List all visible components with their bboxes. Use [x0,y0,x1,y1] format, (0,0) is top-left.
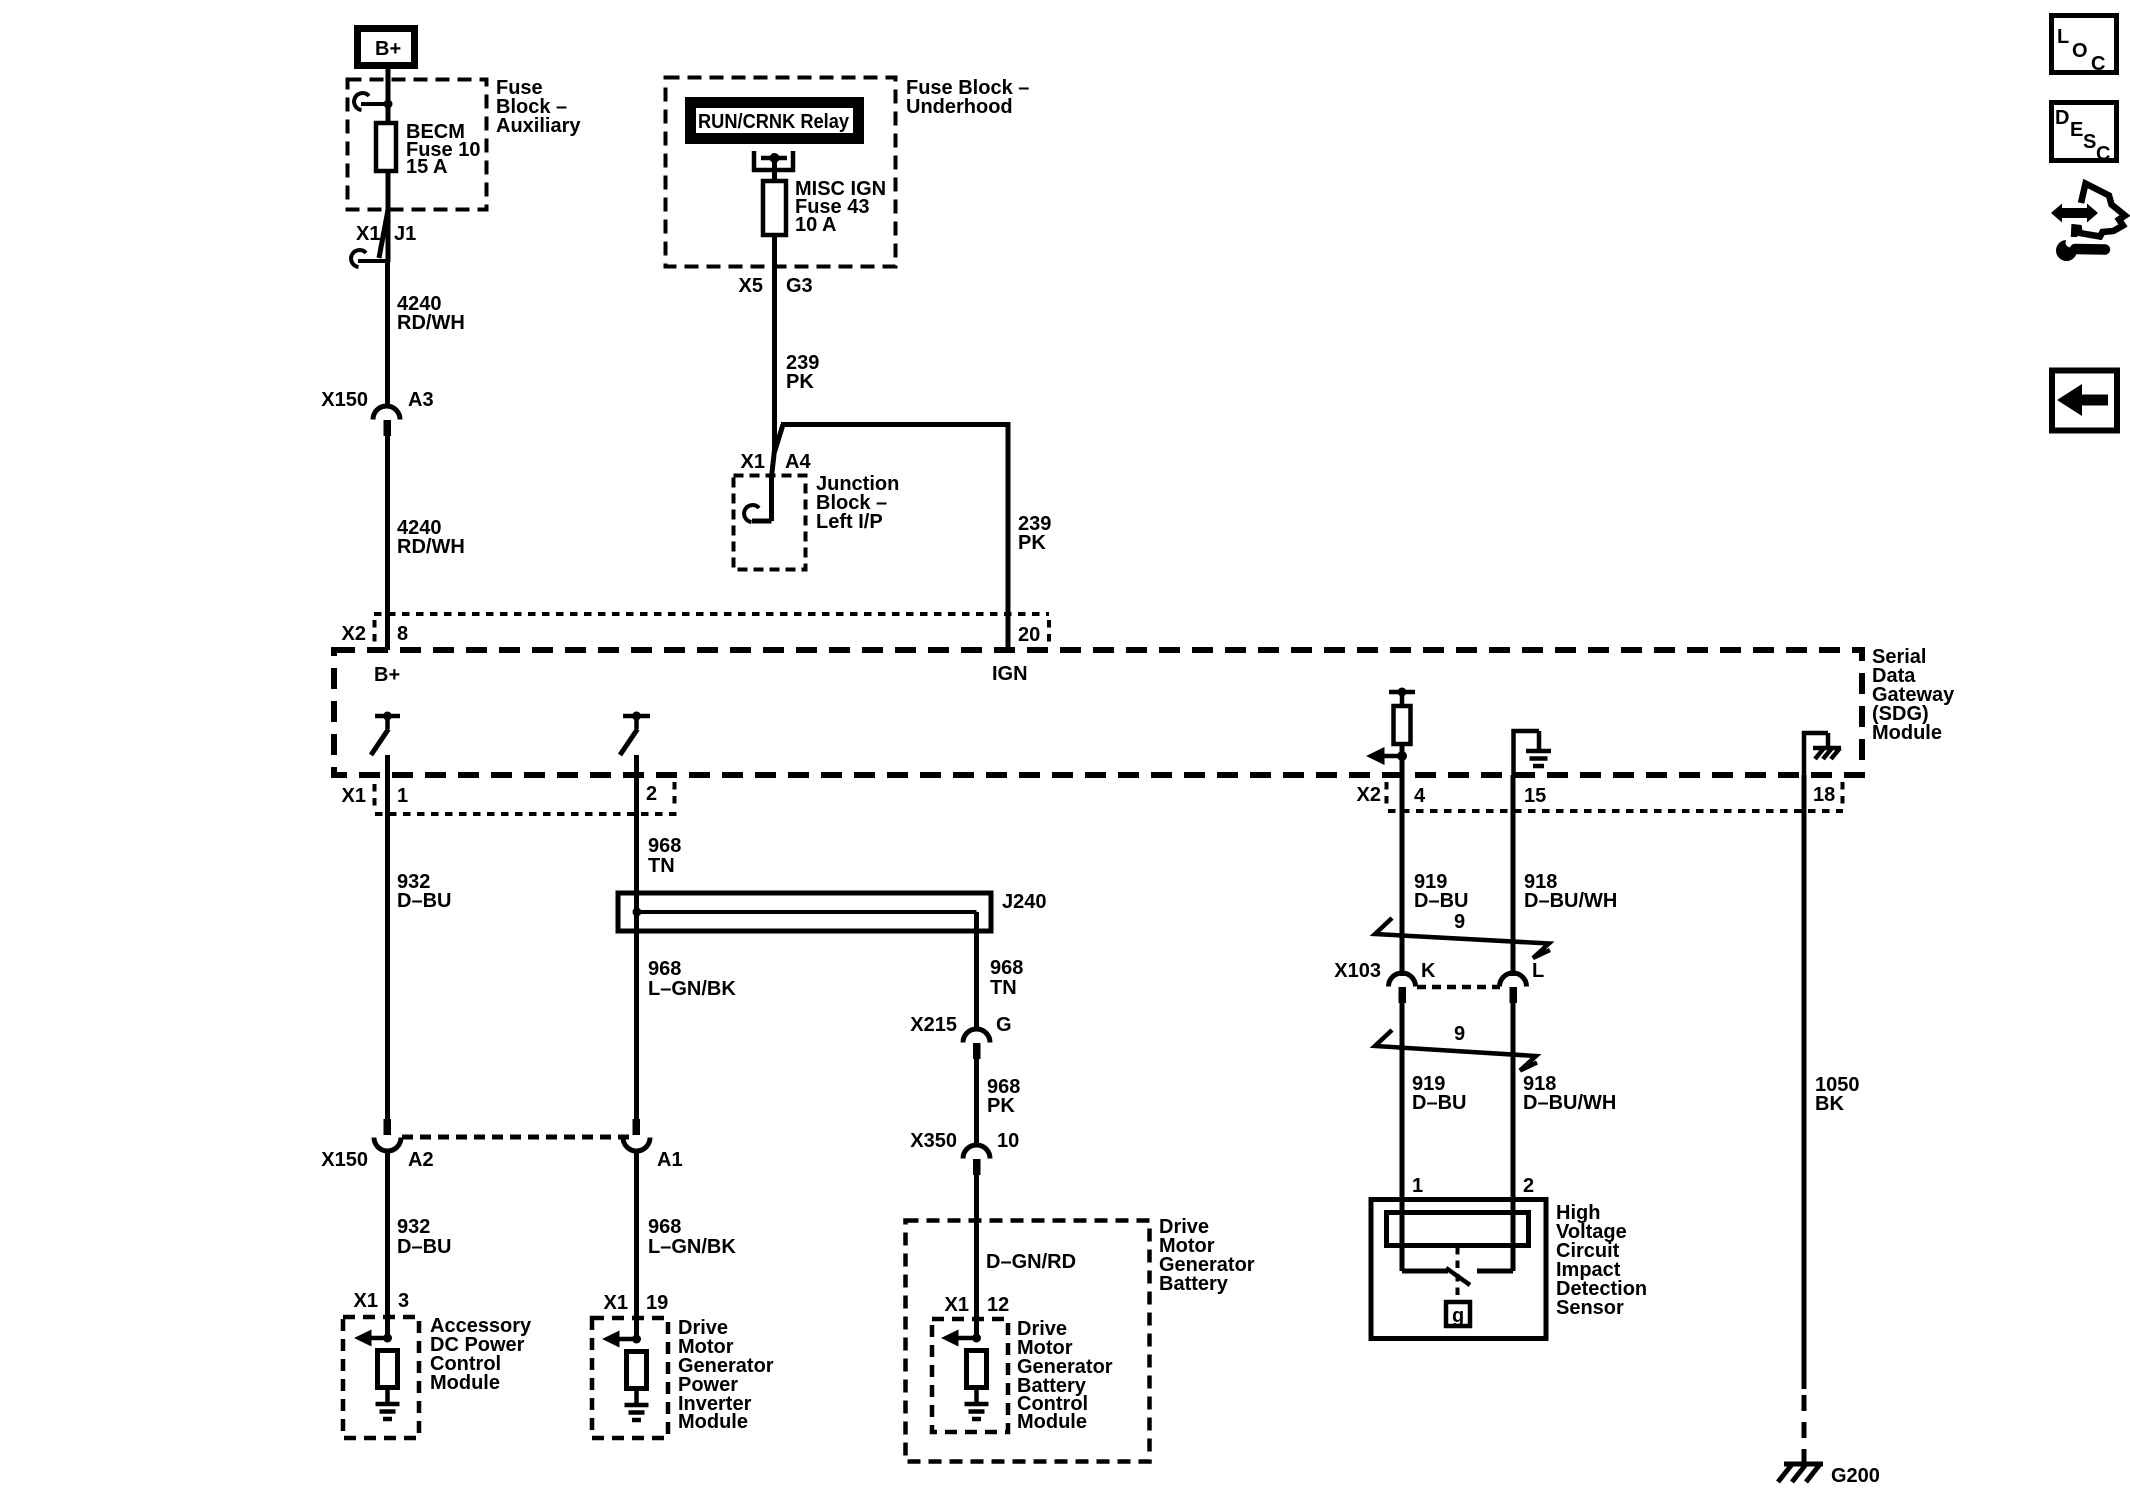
icon back arrow [2052,371,2117,431]
svg-text:12: 12 [987,1294,1009,1316]
svg-text:A1: A1 [657,1149,683,1171]
svg-text:IGN: IGN [992,663,1028,685]
connector X103 L [1500,973,1527,1003]
svg-text:RD/WH: RD/WH [397,312,465,334]
svg-text:G3: G3 [786,275,813,297]
svg-text:968: 968 [648,835,681,857]
svg-text:PK: PK [1018,532,1046,554]
svg-text:D–BU: D–BU [1412,1092,1466,1114]
svg-text:TN: TN [990,977,1017,999]
fuse MISC IGN Fuse 43 10A [763,181,786,235]
svg-text:A2: A2 [408,1149,434,1171]
connector strip X2 (top of SDG module) [374,614,1049,647]
wire to battery module [974,1175,979,1338]
module Drive Motor Generator Power Inverter Module [592,1318,668,1438]
relay terminal socket [752,151,795,172]
svg-text:Module: Module [1872,722,1942,744]
wire 918 D-BU/WH upper [1511,775,1516,976]
svg-text:968: 968 [648,1216,681,1238]
wire 919 D-BU lower [1400,1003,1405,1241]
box Drive Motor Generator Battery [906,1221,1150,1462]
wire B+ to BECM fuse [386,69,391,122]
svg-text:8: 8 [397,623,408,645]
switch S1 (inside SDG, pin 1) [371,712,400,756]
svg-text:E: E [2070,119,2083,141]
wire 919 D-BU upper [1400,775,1405,976]
svg-text:L: L [2057,26,2069,48]
fuse block underhood box [666,78,896,267]
svg-text:A4: A4 [785,451,811,473]
svg-text:15 A: 15 A [406,156,448,178]
svg-text:4: 4 [1414,785,1426,807]
switch S2 (inside SDG, pin 2) [620,712,650,756]
svg-text:D–BU: D–BU [397,1236,451,1258]
svg-text:G200: G200 [1831,1465,1880,1487]
fuse BECM Fuse 10 15A [376,123,396,171]
svg-text:19: 19 [646,1292,668,1314]
svg-text:X1: X1 [604,1292,628,1314]
fuse clip terminal (top) [354,93,392,110]
svg-text:X150: X150 [321,389,368,411]
svg-text:932: 932 [397,1216,430,1238]
wire branch to IGN (239 PK right) [775,422,1009,651]
svg-text:S: S [2083,131,2096,153]
svg-text:Auxiliary: Auxiliary [496,115,581,137]
wire 968 L-GN/BK lower [634,1151,639,1339]
svg-text:9: 9 [1454,911,1465,933]
svg-text:TN: TN [648,855,675,877]
svg-text:J240: J240 [1002,891,1047,913]
module Drive Motor Generator Battery Control Module [932,1319,1008,1432]
svg-text:Module: Module [1017,1411,1087,1433]
junction clip terminal [744,505,759,522]
connector strip X1 (bottom left of SDG) [375,782,678,814]
svg-text:X1: X1 [356,223,380,245]
svg-text:X5: X5 [739,275,763,297]
svg-text:X103: X103 [1334,960,1381,982]
svg-text:X350: X350 [910,1130,957,1152]
svg-text:G: G [996,1014,1012,1036]
wire 918 D-BU/WH lower [1511,1003,1516,1241]
connector X103 K [1389,973,1416,1003]
svg-text:L: L [1532,960,1544,982]
module Accessory DC Power Control Module [343,1317,419,1438]
svg-text:D–BU/WH: D–BU/WH [1524,890,1617,912]
svg-text:K: K [1421,960,1436,982]
svg-text:X2: X2 [342,623,366,645]
svg-text:B+: B+ [374,664,400,686]
svg-text:Left I/P: Left I/P [816,511,883,533]
twisted pair symbol lower, label 9 [1375,1030,1537,1071]
splice pack J240 [618,893,991,931]
arrow out (pin 4) [1366,747,1407,765]
svg-text:10 A: 10 A [795,214,837,236]
svg-text:2: 2 [646,783,657,805]
svg-text:A3: A3 [408,389,434,411]
svg-text:RUN/CRNK Relay: RUN/CRNK Relay [698,111,850,133]
svg-text:X1: X1 [354,1290,378,1312]
wire fuse 43 down through X5 G3 [772,235,777,452]
svg-text:X150: X150 [321,1149,368,1171]
svg-text:D: D [2055,107,2069,129]
resistor (inside SDG, pin 4) [1389,688,1415,776]
junction block left I/P box [734,476,806,570]
wire 4240 RD/WH upper [385,261,390,407]
svg-text:X1: X1 [342,785,366,807]
svg-text:Sensor: Sensor [1556,1297,1624,1319]
svg-text:X1: X1 [945,1294,969,1316]
icon schematic tool (arrows and wrench) [2051,184,2125,262]
svg-text:B+: B+ [375,38,401,60]
connector A1 [623,1119,650,1151]
fuse block auxiliary box [348,80,487,210]
svg-text:968: 968 [990,957,1023,979]
icon LOC [2052,16,2117,76]
chassis ground (inside SDG, pin 18) [1802,731,1841,775]
connector X215 G [963,1029,990,1059]
svg-text:Module: Module [678,1411,748,1433]
wire 968 PK [974,1059,979,1145]
svg-text:BK: BK [1815,1093,1844,1115]
svg-text:3: 3 [398,1290,409,1312]
sensor High Voltage Circuit Impact Detection Sensor [1371,1199,1546,1339]
connector strip X2 (bottom right of SDG) [1387,782,1844,811]
svg-text:D–GN/RD: D–GN/RD [986,1251,1076,1273]
wire 968 TN right of J240 [974,912,979,1029]
wire relay to fuse 43 [772,158,777,181]
svg-text:1: 1 [397,785,408,807]
ground G200 [1778,1463,1823,1482]
svg-text:20: 20 [1018,624,1040,646]
svg-text:D–BU: D–BU [1414,890,1468,912]
svg-text:2: 2 [1523,1175,1534,1197]
dashed link K to L [1417,985,1500,990]
wire 4240 RD/WH lower [385,436,390,650]
svg-text:15: 15 [1524,785,1546,807]
svg-text:O: O [2072,40,2088,62]
svg-text:968: 968 [648,958,681,980]
wire fuse to X1 J1 [386,171,391,262]
ground (inside SDG, pin 15) [1512,729,1552,775]
fuse clip terminal (bottom) with slanted lead [351,210,388,267]
connector X150 A3 [373,406,400,436]
svg-text:g: g [1452,1305,1464,1327]
svg-text:Underhood: Underhood [906,96,1013,118]
svg-text:X215: X215 [910,1014,957,1036]
svg-text:J1: J1 [394,223,416,245]
svg-text:9: 9 [1454,1023,1465,1045]
power symbol B+ [358,29,415,66]
icon DESC [2052,103,2117,166]
svg-text:D–BU: D–BU [397,890,451,912]
wire 932 D-BU upper [385,755,390,1119]
svg-text:X1: X1 [741,451,765,473]
svg-text:L–GN/BK: L–GN/BK [648,1236,736,1258]
svg-text:Module: Module [430,1372,500,1394]
svg-text:X2: X2 [1357,784,1381,806]
wire into junction block [752,450,775,521]
svg-text:Battery: Battery [1159,1273,1229,1295]
SDG module boundary box [334,650,1862,775]
svg-text:18: 18 [1813,784,1835,806]
wire 932 D-BU lower [385,1151,390,1338]
svg-text:PK: PK [987,1095,1015,1117]
dashed link A2 to A1 [402,1135,630,1140]
wire 968 TN upper [634,755,639,1119]
svg-text:C: C [2096,143,2110,165]
svg-text:10: 10 [997,1130,1019,1152]
svg-text:1: 1 [1412,1175,1423,1197]
twisted pair symbol upper, label 9 [1375,918,1550,958]
svg-text:RD/WH: RD/WH [397,536,465,558]
svg-text:D–BU/WH: D–BU/WH [1523,1092,1616,1114]
connector X350 10 [963,1145,990,1175]
wire 1050 BK [1802,775,1807,1389]
svg-text:PK: PK [786,371,814,393]
relay RUN/CRNK Relay [689,101,860,140]
svg-text:L–GN/BK: L–GN/BK [648,978,736,1000]
connector X150 A2 [374,1119,401,1151]
svg-text:C: C [2091,53,2105,75]
